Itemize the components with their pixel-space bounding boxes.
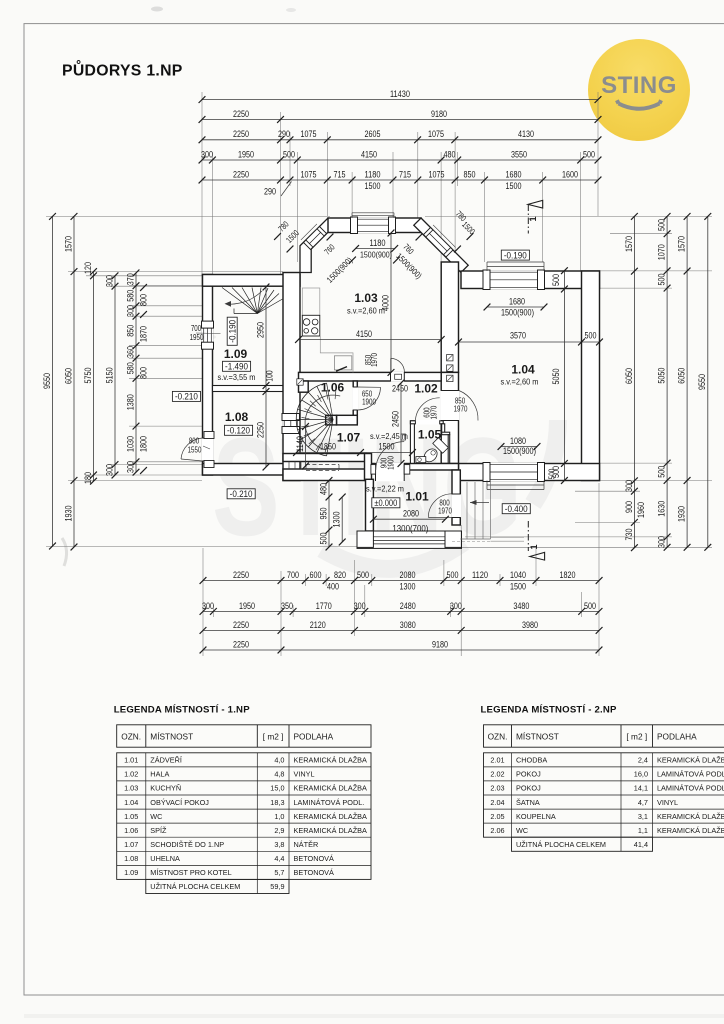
svg-text:2,9: 2,9	[274, 826, 284, 835]
svg-text:1500: 1500	[510, 582, 526, 593]
svg-text:2.06: 2.06	[490, 826, 504, 835]
svg-text:SCHODIŠTĚ DO 1.NP: SCHODIŠTĚ DO 1.NP	[150, 840, 224, 849]
svg-text:1950: 1950	[190, 333, 204, 342]
svg-text:KUCHYŇ: KUCHYŇ	[150, 784, 181, 793]
svg-text:s.v.=2,60 m: s.v.=2,60 m	[347, 307, 385, 316]
svg-text:6050: 6050	[624, 368, 635, 384]
svg-text:800: 800	[189, 437, 200, 446]
svg-text:15,0: 15,0	[270, 784, 284, 793]
svg-text:1.03: 1.03	[354, 291, 378, 305]
svg-text:PODLAHA: PODLAHA	[657, 731, 697, 741]
svg-text:3480: 3480	[513, 601, 529, 612]
svg-text:2.05: 2.05	[490, 812, 504, 821]
svg-text:4,7: 4,7	[638, 798, 648, 807]
svg-text:1500(900): 1500(900)	[360, 250, 392, 260]
svg-text:1600: 1600	[562, 169, 578, 180]
svg-text:730: 730	[624, 529, 635, 541]
window 1.04 north	[485, 270, 544, 289]
svg-text:KERAMICKÁ DLAŽBA: KERAMICKÁ DLAŽBA	[657, 756, 724, 765]
bay front wall	[328, 218, 421, 233]
svg-text:9550: 9550	[42, 373, 53, 389]
svg-text:KERAMICKÁ DLAŽBA: KERAMICKÁ DLAŽBA	[657, 812, 724, 821]
svg-text:9180: 9180	[432, 639, 448, 650]
wall south of stair 1.07	[283, 454, 366, 462]
exterior steps below 1.07	[288, 462, 290, 470]
svg-text:1: 1	[528, 216, 538, 221]
svg-text:1500: 1500	[506, 181, 522, 192]
svg-text:MÍSTNOST: MÍSTNOST	[150, 731, 193, 741]
kitchen counter and sink	[320, 336, 353, 372]
svg-text:WC: WC	[516, 826, 528, 835]
svg-text:3570: 3570	[510, 331, 526, 342]
svg-text:1680: 1680	[506, 169, 522, 180]
wall kitchen/1.04	[441, 262, 458, 372]
svg-text:PŮDORYS 1.NP: PŮDORYS 1.NP	[62, 60, 183, 80]
window 1.09 west wall	[202, 323, 213, 348]
svg-text:1.08: 1.08	[124, 854, 138, 863]
svg-text:4130: 4130	[518, 129, 534, 140]
svg-text:1.04: 1.04	[511, 363, 535, 377]
svg-text:1.01: 1.01	[124, 756, 138, 765]
svg-text:9550: 9550	[697, 374, 708, 390]
window dims 1.04 south	[501, 446, 537, 448]
svg-text:3,1: 3,1	[638, 812, 648, 821]
wall 1.06 east	[353, 381, 357, 423]
svg-text:LAMINÁTOVÁ PODL.: LAMINÁTOVÁ PODL.	[657, 770, 724, 779]
svg-text:500: 500	[585, 331, 597, 342]
svg-text:1550: 1550	[188, 446, 202, 455]
svg-text:500: 500	[357, 570, 369, 581]
door 1.01 from hall	[376, 463, 405, 482]
south wall 1.04	[459, 464, 600, 481]
svg-text:1075: 1075	[428, 129, 444, 140]
dim chain left of 1.01	[328, 481, 330, 548]
svg-text:800: 800	[139, 294, 150, 306]
door 1.01 to porch	[451, 494, 461, 518]
svg-text:500: 500	[657, 466, 668, 478]
dim 4000 kitchen	[390, 233, 392, 372]
svg-text:715: 715	[334, 169, 346, 180]
svg-text:2,4: 2,4	[638, 756, 648, 765]
svg-text:2450: 2450	[390, 411, 401, 427]
wall 1.02/1.04	[441, 372, 458, 463]
svg-text:ZÁDVEŘÍ: ZÁDVEŘÍ	[150, 756, 183, 765]
bay right diagonal wall	[414, 218, 468, 272]
svg-text:±0.000: ±0.000	[374, 497, 397, 508]
svg-text:2250: 2250	[233, 570, 249, 581]
svg-text:180: 180	[83, 472, 94, 484]
svg-text:1950: 1950	[239, 601, 255, 612]
window bay left diagonal	[304, 227, 327, 250]
svg-text:1180: 1180	[370, 238, 386, 249]
watermark STING	[212, 408, 558, 569]
svg-text:1.06: 1.06	[321, 381, 345, 395]
svg-text:300: 300	[125, 461, 136, 473]
svg-text:KERAMICKÁ DLAŽBA: KERAMICKÁ DLAŽBA	[294, 756, 368, 765]
door 1.04 from hall	[440, 391, 459, 421]
svg-text:480: 480	[444, 149, 456, 160]
svg-text:1.06: 1.06	[124, 826, 138, 835]
svg-text:360: 360	[125, 346, 136, 358]
svg-text:-1.490: -1.490	[225, 361, 248, 372]
svg-text:4,8: 4,8	[274, 770, 284, 779]
svg-text:500: 500	[583, 149, 595, 160]
svg-text:POKOJ: POKOJ	[516, 770, 541, 779]
svg-text:ŠATNA: ŠATNA	[516, 798, 540, 807]
wall stub 1.06/1.07	[337, 415, 358, 425]
washbasin 1.05	[416, 457, 426, 463]
svg-text:820: 820	[334, 570, 346, 581]
svg-text:1820: 1820	[560, 570, 576, 581]
svg-text:NÁTĚR: NÁTĚR	[294, 840, 319, 849]
svg-text:1,0: 1,0	[274, 812, 284, 821]
svg-text:s.v.=2,45 m: s.v.=2,45 m	[370, 432, 408, 441]
window bay right diagonal	[424, 228, 454, 258]
svg-text:2080: 2080	[403, 509, 419, 520]
right dimension block	[425, 215, 712, 217]
south wall main (west part)	[283, 469, 366, 481]
svg-text:2250: 2250	[233, 169, 249, 180]
dim 2080 / 1300(700)	[373, 518, 445, 520]
main west wall	[283, 273, 300, 481]
bottom dimension block	[202, 548, 204, 656]
svg-text:300: 300	[354, 601, 366, 612]
left dimension block	[46, 215, 330, 217]
svg-text:2.04: 2.04	[490, 798, 504, 807]
svg-text:-0.120: -0.120	[227, 425, 250, 436]
svg-text:SPÍŽ: SPÍŽ	[150, 826, 167, 835]
svg-text:5050: 5050	[551, 369, 562, 385]
svg-text:2250: 2250	[233, 109, 249, 120]
svg-text:MÍSTNOST PRO KOTEL: MÍSTNOST PRO KOTEL	[150, 868, 231, 877]
svg-text:1.05: 1.05	[418, 428, 442, 442]
svg-text:500: 500	[318, 533, 329, 545]
svg-text:1: 1	[529, 544, 539, 549]
wall 1.07/1.01	[365, 454, 372, 481]
svg-text:1.01: 1.01	[405, 490, 429, 504]
svg-text:2450: 2450	[392, 384, 408, 395]
svg-text:1680: 1680	[509, 296, 525, 307]
svg-text:2.01: 2.01	[490, 756, 504, 765]
svg-text:1.02: 1.02	[124, 770, 138, 779]
svg-text:480: 480	[318, 483, 329, 495]
svg-text:1.09: 1.09	[224, 347, 248, 361]
svg-text:-0.400: -0.400	[505, 503, 528, 514]
top dimension block	[201, 92, 203, 276]
svg-text:500: 500	[657, 274, 668, 286]
svg-text:900: 900	[624, 501, 635, 513]
svg-text:3,8: 3,8	[274, 840, 284, 849]
wall left wing south	[203, 464, 298, 476]
window bay front	[352, 217, 394, 233]
svg-text:1300: 1300	[400, 582, 416, 593]
svg-text:6050: 6050	[677, 368, 688, 384]
svg-text:5050: 5050	[657, 368, 668, 384]
svg-text:BETONOVÁ: BETONOVÁ	[294, 868, 335, 877]
svg-text:1075: 1075	[301, 169, 317, 180]
svg-text:950: 950	[318, 508, 329, 520]
svg-text:BETONOVÁ: BETONOVÁ	[294, 854, 335, 863]
svg-text:1870: 1870	[139, 326, 150, 342]
window 1.07 west wall	[282, 415, 299, 432]
svg-text:1380: 1380	[125, 394, 136, 410]
window 1.04 south	[485, 463, 544, 481]
svg-text:2950: 2950	[255, 322, 266, 338]
svg-text:1.07: 1.07	[337, 431, 361, 445]
svg-text:18,3: 18,3	[270, 798, 284, 807]
dim 1850/1500 hall	[297, 452, 413, 454]
vestibule west wall	[366, 479, 374, 531]
svg-text:300: 300	[202, 601, 214, 612]
svg-text:1970: 1970	[370, 353, 379, 367]
svg-text:5750: 5750	[83, 368, 94, 384]
svg-text:1500(900): 1500(900)	[501, 308, 534, 318]
window dims 1.04 north	[487, 306, 544, 308]
svg-text:2250: 2250	[233, 129, 249, 140]
svg-text:1570: 1570	[677, 236, 688, 252]
svg-text:850: 850	[125, 325, 136, 337]
svg-text:1140: 1140	[295, 436, 306, 452]
wall kitchen south / hall north	[299, 372, 442, 381]
svg-text:500: 500	[447, 570, 459, 581]
door 1.08 west (exterior)	[202, 438, 214, 461]
svg-text:1850: 1850	[320, 442, 336, 453]
svg-text:-0.210: -0.210	[230, 488, 253, 499]
svg-text:1950: 1950	[238, 149, 254, 160]
svg-text:2.03: 2.03	[490, 784, 504, 793]
svg-text:UŽITNÁ PLOCHA CELKEM: UŽITNÁ PLOCHA CELKEM	[150, 882, 240, 891]
svg-text:300: 300	[657, 536, 668, 548]
svg-text:1970: 1970	[438, 507, 452, 516]
svg-text:2250: 2250	[233, 639, 249, 650]
svg-text:500: 500	[547, 468, 557, 479]
door 1.06 from hall	[352, 387, 358, 410]
svg-text:41,4: 41,4	[634, 840, 648, 849]
svg-text:2250: 2250	[255, 422, 266, 438]
svg-text:1630: 1630	[657, 501, 668, 517]
svg-text:16,0: 16,0	[634, 770, 648, 779]
svg-text:s.v.=2,22 m: s.v.=2,22 m	[366, 485, 404, 494]
svg-text:1075: 1075	[429, 169, 445, 180]
svg-text:290: 290	[264, 187, 276, 198]
svg-text:6050: 6050	[63, 368, 74, 384]
svg-text:500: 500	[584, 601, 596, 612]
svg-text:59,9: 59,9	[270, 882, 284, 891]
svg-text:KERAMICKÁ DLAŽBA: KERAMICKÁ DLAŽBA	[657, 826, 724, 835]
svg-text:OZN.: OZN.	[488, 731, 508, 741]
svg-text:1.08: 1.08	[225, 410, 249, 424]
svg-text:OBÝVACÍ POKOJ: OBÝVACÍ POKOJ	[150, 798, 209, 807]
dim 5050 room 1.04	[563, 271, 565, 481]
svg-text:300: 300	[201, 149, 213, 160]
svg-text:-0.210: -0.210	[175, 391, 198, 402]
svg-text:600: 600	[310, 570, 322, 581]
svg-text:UHELNA: UHELNA	[150, 854, 180, 863]
svg-text:2.02: 2.02	[490, 770, 504, 779]
svg-text:5150: 5150	[104, 367, 115, 383]
svg-text:4150: 4150	[361, 149, 377, 160]
svg-text:1.05: 1.05	[124, 812, 138, 821]
svg-text:11430: 11430	[390, 89, 410, 100]
svg-text:300: 300	[125, 305, 136, 317]
svg-text:1.09: 1.09	[124, 868, 138, 877]
svg-text:1075: 1075	[301, 129, 317, 140]
north wall main/1.04	[461, 271, 600, 289]
svg-text:LAMINÁTOVÁ PODL.: LAMINÁTOVÁ PODL.	[657, 784, 724, 793]
dashed hidden line under stair	[306, 464, 339, 466]
svg-text:UŽITNÁ PLOCHA CELKEM: UŽITNÁ PLOCHA CELKEM	[516, 840, 606, 849]
svg-text:800: 800	[139, 367, 150, 379]
svg-text:100: 100	[265, 370, 275, 381]
svg-text:1800: 1800	[139, 436, 150, 452]
svg-text:290: 290	[278, 129, 290, 140]
toilet 1.05	[421, 438, 449, 466]
svg-text:2605: 2605	[365, 129, 381, 140]
svg-text:MÍSTNOST: MÍSTNOST	[516, 731, 559, 741]
wall 1.05 west	[410, 421, 414, 464]
svg-text:[ m2 ]: [ m2 ]	[626, 731, 647, 741]
bay window dims	[356, 248, 395, 250]
door 1.05 from hall	[415, 420, 439, 425]
spiral staircase 1.07	[327, 383, 333, 419]
svg-text:715: 715	[399, 169, 411, 180]
svg-text:500: 500	[657, 219, 668, 231]
svg-text:1120: 1120	[472, 570, 488, 581]
svg-text:3980: 3980	[522, 620, 538, 631]
svg-text:120: 120	[83, 262, 94, 274]
svg-text:-0.190: -0.190	[504, 249, 527, 260]
wall 1.05 east lower	[448, 435, 450, 464]
svg-text:580: 580	[125, 290, 136, 302]
svg-text:350: 350	[281, 601, 293, 612]
svg-text:5,7: 5,7	[274, 868, 284, 877]
svg-text:300: 300	[450, 601, 462, 612]
dim 2950/100/2250 rooms 1.09+1.08	[265, 287, 267, 467]
staircase 1.09	[222, 288, 257, 314]
radiator hall	[401, 434, 406, 440]
stove kitchen	[302, 288, 320, 315]
svg-text:2250: 2250	[233, 620, 249, 631]
svg-text:KERAMICKÁ DLAŽBA: KERAMICKÁ DLAŽBA	[294, 826, 368, 835]
svg-text:1,1: 1,1	[638, 826, 648, 835]
svg-text:HALA: HALA	[150, 770, 169, 779]
svg-text:s.v.=2,60 m: s.v.=2,60 m	[501, 378, 539, 387]
scan smudges	[151, 7, 163, 12]
svg-text:400: 400	[327, 582, 339, 593]
svg-text:850: 850	[464, 169, 476, 180]
svg-text:500: 500	[551, 274, 562, 286]
svg-text:9180: 9180	[431, 109, 447, 120]
dim 3570/500	[459, 341, 600, 343]
svg-text:WC: WC	[150, 812, 162, 821]
svg-text:VINYL: VINYL	[657, 798, 678, 807]
vestibule east wall	[452, 470, 460, 525]
svg-text:VINYL: VINYL	[294, 770, 315, 779]
wall divider 1.08/1.09	[213, 386, 284, 392]
bay left diagonal wall	[300, 218, 335, 273]
svg-text:KOUPELNA: KOUPELNA	[516, 812, 556, 821]
svg-text:1.07: 1.07	[124, 840, 138, 849]
svg-text:-0.190: -0.190	[226, 320, 237, 343]
svg-text:1.04: 1.04	[124, 798, 138, 807]
svg-text:1500: 1500	[365, 181, 381, 192]
svg-text:1570: 1570	[63, 236, 74, 252]
svg-text:CHODBA: CHODBA	[516, 756, 547, 765]
svg-text:LEGENDA MÍSTNOSTÍ - 1.NP: LEGENDA MÍSTNOSTÍ - 1.NP	[114, 704, 251, 716]
svg-text:LEGENDA MÍSTNOSTÍ - 2.NP: LEGENDA MÍSTNOSTÍ - 2.NP	[481, 704, 618, 716]
svg-text:1030: 1030	[125, 436, 136, 452]
svg-text:KERAMICKÁ DLAŽBA: KERAMICKÁ DLAŽBA	[294, 784, 368, 793]
svg-text:KERAMICKÁ DLAŽBA: KERAMICKÁ DLAŽBA	[294, 812, 368, 821]
svg-text:300: 300	[104, 275, 115, 287]
svg-text:2480: 2480	[400, 601, 416, 612]
svg-text:4150: 4150	[356, 329, 372, 340]
svg-text:1970: 1970	[430, 405, 439, 419]
svg-text:1.03: 1.03	[124, 784, 138, 793]
newel rect stair 1.07	[326, 415, 337, 425]
svg-text:4,4: 4,4	[274, 854, 284, 863]
svg-text:STING: STING	[601, 72, 677, 99]
svg-text:POKOJ: POKOJ	[516, 784, 541, 793]
svg-text:1.02: 1.02	[414, 382, 438, 396]
svg-text:4000: 4000	[380, 295, 391, 311]
dim 4150 kitchen	[299, 339, 442, 341]
svg-text:1500: 1500	[379, 442, 395, 453]
wall marker squares	[297, 379, 303, 385]
svg-text:1960: 1960	[636, 502, 647, 518]
svg-text:1300(700): 1300(700)	[392, 524, 428, 535]
east wall 1.04	[582, 271, 600, 481]
svg-text:700: 700	[191, 324, 202, 333]
porch steps east of 1.01	[466, 482, 468, 539]
svg-text:1300: 1300	[332, 512, 343, 528]
svg-text:1930: 1930	[677, 506, 688, 522]
svg-text:1970: 1970	[454, 405, 468, 414]
svg-text:1070: 1070	[657, 244, 668, 260]
wall left wing north	[203, 275, 301, 287]
svg-text:1570: 1570	[624, 236, 635, 252]
svg-text:OZN.: OZN.	[121, 731, 141, 741]
level boxes -0.210	[172, 391, 200, 402]
svg-text:3080: 3080	[400, 620, 416, 631]
svg-text:14,1: 14,1	[634, 784, 648, 793]
svg-text:1900: 1900	[387, 456, 396, 470]
svg-text:1040: 1040	[510, 570, 526, 581]
door kitchen from hall	[391, 372, 405, 382]
wall 1.05 north	[410, 421, 443, 424]
svg-text:[ m2 ]: [ m2 ]	[263, 731, 284, 741]
svg-text:4,0: 4,0	[274, 756, 284, 765]
svg-text:1180: 1180	[365, 169, 381, 180]
svg-text:3550: 3550	[511, 149, 527, 160]
svg-text:1770: 1770	[316, 601, 332, 612]
svg-text:1500(900): 1500(900)	[503, 446, 536, 456]
dim 1140	[305, 427, 307, 467]
wall 1.05 east upper	[442, 424, 445, 434]
wall left wing west	[203, 275, 213, 476]
svg-text:1900: 1900	[362, 398, 376, 407]
svg-text:500: 500	[283, 149, 295, 160]
svg-text:300: 300	[104, 464, 115, 476]
svg-text:2080: 2080	[400, 570, 416, 581]
svg-text:370: 370	[125, 273, 136, 285]
svg-text:2120: 2120	[310, 620, 326, 631]
svg-text:580: 580	[125, 362, 136, 374]
chimney block 1.06	[299, 381, 309, 392]
svg-text:700: 700	[287, 570, 299, 581]
svg-text:300: 300	[624, 480, 635, 492]
svg-text:1930: 1930	[63, 506, 74, 522]
